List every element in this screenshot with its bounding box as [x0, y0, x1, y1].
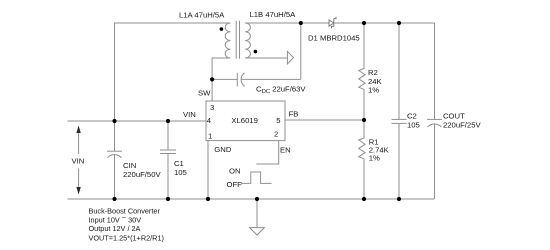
svg-text:FB: FB: [289, 110, 299, 119]
svg-text:EN: EN: [280, 146, 291, 155]
wire L1B top to node: [245, 22, 301, 24]
wire node down to CDC: [300, 23, 302, 79]
wire output right drop: [434, 23, 436, 119]
svg-text:D1 MBRD1045: D1 MBRD1045: [308, 34, 360, 43]
capacitor COUT plates: [427, 118, 442, 120]
svg-text:L1A 47uH/5A: L1A 47uH/5A: [179, 11, 225, 20]
wire L1A bottom to SW pin: [212, 58, 230, 101]
svg-text:3: 3: [210, 103, 214, 112]
svg-text:1%: 1%: [369, 153, 380, 162]
node dot SW/CDC: [210, 77, 214, 81]
capacitor CIN leads: [114, 121, 116, 151]
svg-text:220uF/50V: 220uF/50V: [123, 170, 161, 179]
svg-text:220uF/25V: 220uF/25V: [443, 121, 481, 130]
node dot L1B top: [299, 21, 303, 25]
capacitor C2 leads: [398, 23, 400, 119]
svg-text:XL6019: XL6019: [231, 116, 258, 125]
svg-text:L1B 47uH/5A: L1B 47uH/5A: [250, 10, 297, 19]
resistor R1: [359, 120, 365, 199]
node dot ground stub: [255, 197, 259, 201]
wire COUT bottom: [434, 123, 436, 199]
ground stub wire: [256, 199, 258, 228]
svg-text:5: 5: [276, 116, 280, 125]
node dot GND pin: [206, 197, 210, 201]
capacitor CIN plates: [107, 150, 122, 152]
svg-text:VIN: VIN: [183, 110, 196, 119]
node dot C2 bottom: [397, 197, 401, 201]
svg-text:CIN: CIN: [123, 161, 136, 170]
svg-text:OFF: OFF: [227, 180, 243, 189]
node dot C1 top: [166, 119, 170, 123]
svg-text:SW: SW: [198, 89, 211, 98]
wire ground bottom rail: [68, 198, 435, 200]
svg-text:VIN: VIN: [72, 157, 85, 166]
transformer phase dot right: [254, 50, 258, 54]
transformer phase dot left: [220, 27, 224, 31]
VIN indicator arrowheads: [76, 126, 80, 134]
capacitor CDC leads: [212, 78, 237, 80]
wire GND pin to rail: [207, 141, 209, 199]
svg-text:1%: 1%: [368, 86, 379, 95]
diode D1 symbol: [329, 17, 336, 28]
wire L1B bottom to arrow: [245, 57, 287, 59]
node dot CIN bottom: [112, 197, 116, 201]
svg-text:R2: R2: [368, 68, 378, 77]
node dot R2 top: [362, 21, 366, 25]
capacitor C1 plates: [160, 149, 176, 151]
IC U1 XL6019 body: [206, 101, 285, 141]
ground symbol: [250, 228, 265, 235]
node dot C2 top: [397, 21, 401, 25]
wire top rail to diode: [301, 22, 329, 24]
svg-text:4: 4: [207, 116, 212, 125]
node dot FB: [362, 118, 366, 122]
svg-text:Input 10V ~ 30V: Input 10V ~ 30V: [89, 213, 142, 225]
capacitor C1 leads: [167, 121, 169, 150]
inductor L1A winding: [225, 23, 230, 58]
svg-text:C1: C1: [174, 159, 184, 168]
svg-text:COUT: COUT: [443, 112, 465, 121]
resistor R2: [359, 23, 365, 120]
inductor L1B winding: [245, 23, 250, 58]
wire EN pin: [256, 141, 278, 164]
capacitor C2 plates: [392, 118, 407, 120]
wire VIN rail: [68, 120, 207, 122]
svg-text:CDC 22uF/63V: CDC 22uF/63V: [256, 85, 306, 96]
node dot C1 bottom: [166, 197, 170, 201]
capacitor CDC plates: [236, 73, 238, 87]
wire diode to COUT corner: [334, 22, 435, 24]
svg-text:ON: ON: [229, 167, 241, 176]
svg-text:105: 105: [407, 120, 420, 129]
current direction arrow: [287, 51, 293, 64]
svg-text:Output 12V / 2A: Output 12V / 2A: [89, 224, 141, 233]
wire FB: [285, 119, 364, 121]
pulse waveform symbol: [241, 172, 272, 183]
node dot R1 bottom: [362, 197, 366, 201]
svg-text:2: 2: [274, 129, 278, 138]
svg-text:GND: GND: [214, 145, 232, 154]
svg-text:VOUT=1.25*(1+R2/R1): VOUT=1.25*(1+R2/R1): [89, 233, 164, 242]
node dot VIN/CIN: [112, 119, 116, 123]
svg-text:1: 1: [208, 131, 212, 140]
svg-text:105: 105: [174, 168, 187, 177]
VIN indicator line: [78, 128, 80, 154]
transformer core: [235, 21, 237, 59]
svg-text:C2: C2: [407, 112, 417, 121]
wire top-left horizontal VIN to L1A: [115, 23, 231, 121]
svg-text:24K: 24K: [368, 77, 383, 86]
